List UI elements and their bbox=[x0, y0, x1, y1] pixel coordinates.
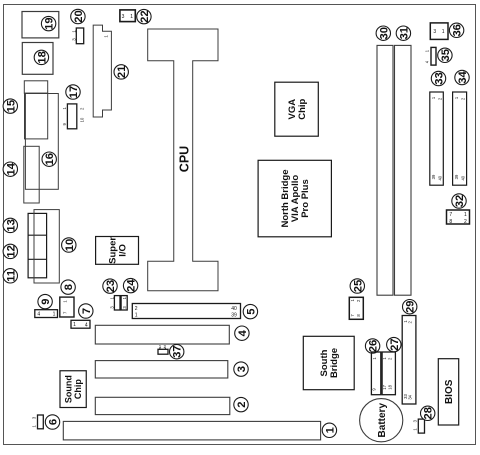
label 15 bbox=[3, 99, 17, 113]
label 14 bbox=[3, 162, 17, 176]
svg-text:3: 3 bbox=[433, 29, 436, 35]
svg-text:8: 8 bbox=[63, 284, 75, 290]
connector 22 box bbox=[120, 10, 135, 22]
label 17 bbox=[66, 85, 80, 99]
connectors 13/12/11 stack bbox=[28, 213, 46, 277]
svg-text:Battery: Battery bbox=[377, 403, 388, 438]
svg-text:18: 18 bbox=[388, 384, 393, 389]
svg-text:1: 1 bbox=[73, 322, 76, 328]
svg-text:18: 18 bbox=[36, 51, 48, 63]
svg-text:1: 1 bbox=[324, 427, 336, 433]
Battery bbox=[360, 399, 403, 442]
VGA Chip bbox=[275, 82, 319, 136]
Super I/O chip bbox=[96, 237, 139, 265]
svg-text:Chip: Chip bbox=[297, 98, 308, 119]
slot 4 bbox=[95, 325, 229, 344]
svg-text:40: 40 bbox=[438, 175, 443, 180]
svg-text:37: 37 bbox=[172, 345, 184, 357]
svg-text:34: 34 bbox=[408, 394, 413, 399]
label 37 bbox=[170, 345, 184, 359]
svg-text:22: 22 bbox=[139, 10, 151, 22]
connector 20 (3-pin) bbox=[71, 28, 83, 44]
svg-text:19: 19 bbox=[44, 17, 56, 29]
label 18 bbox=[34, 50, 48, 64]
label 4 bbox=[235, 326, 249, 340]
svg-text:4: 4 bbox=[37, 312, 40, 318]
connector 15 upper box bbox=[24, 81, 47, 93]
BIOS chip bbox=[438, 359, 458, 425]
connector 35 box bbox=[425, 47, 436, 65]
svg-text:Bridge: Bridge bbox=[329, 348, 340, 378]
label 7 bbox=[79, 304, 93, 318]
connector 15 box bbox=[25, 93, 48, 139]
svg-text:24: 24 bbox=[126, 279, 138, 292]
connector 10 outer box bbox=[34, 210, 59, 283]
label 27 bbox=[387, 337, 401, 351]
svg-text:5: 5 bbox=[245, 308, 257, 314]
svg-text:15: 15 bbox=[5, 100, 17, 112]
connector 32 box bbox=[447, 210, 470, 225]
label 23 bbox=[103, 279, 117, 293]
svg-text:16: 16 bbox=[44, 153, 56, 165]
svg-text:2: 2 bbox=[135, 306, 138, 312]
svg-text:28: 28 bbox=[423, 407, 435, 419]
DIMM slot 30 bbox=[377, 45, 393, 295]
svg-text:10: 10 bbox=[79, 117, 84, 122]
svg-text:21: 21 bbox=[116, 66, 128, 78]
label 20 bbox=[71, 9, 85, 23]
svg-text:36: 36 bbox=[452, 24, 464, 36]
label 9 bbox=[38, 294, 52, 308]
svg-text:2: 2 bbox=[236, 401, 248, 407]
svg-text:13: 13 bbox=[5, 219, 17, 231]
svg-text:39: 39 bbox=[431, 174, 436, 179]
svg-text:1: 1 bbox=[130, 14, 133, 20]
connector 28 (3-pin) bbox=[412, 419, 424, 433]
label 8 bbox=[61, 280, 75, 294]
label 12 bbox=[3, 244, 17, 258]
svg-text:34: 34 bbox=[457, 71, 469, 84]
label 5 bbox=[243, 304, 257, 318]
svg-text:40: 40 bbox=[460, 175, 465, 180]
svg-text:32: 32 bbox=[454, 195, 466, 207]
svg-text:31: 31 bbox=[398, 27, 410, 39]
svg-text:4: 4 bbox=[237, 329, 249, 336]
svg-text:7: 7 bbox=[81, 308, 93, 314]
svg-text:27: 27 bbox=[389, 338, 401, 350]
label 6 bbox=[45, 415, 59, 429]
svg-text:39: 39 bbox=[231, 313, 237, 319]
connector 5 (40-pin floppy/IDE) bbox=[132, 304, 240, 319]
connector 7 box bbox=[71, 320, 90, 328]
svg-text:I/O: I/O bbox=[117, 244, 128, 257]
connector 6 (3-pin) bbox=[32, 415, 44, 429]
label 13 bbox=[3, 218, 17, 232]
connector 17 (2x5 header) bbox=[62, 104, 84, 129]
label 32 bbox=[452, 194, 466, 208]
svg-text:35: 35 bbox=[440, 49, 452, 61]
CPU slot (Slot-1 I shape) bbox=[148, 29, 218, 291]
svg-text:Chip: Chip bbox=[73, 379, 83, 399]
connector 14 box bbox=[24, 146, 39, 203]
connector 18 box bbox=[22, 43, 53, 75]
svg-text:14: 14 bbox=[5, 162, 17, 175]
svg-text:39: 39 bbox=[454, 174, 459, 179]
connector 16 outer box bbox=[25, 94, 58, 190]
connector 36 box bbox=[430, 23, 448, 40]
label 16 bbox=[42, 152, 56, 166]
svg-text:40: 40 bbox=[231, 306, 237, 312]
connector 37 (fan) bbox=[158, 344, 168, 354]
svg-text:Sound: Sound bbox=[64, 375, 74, 403]
svg-text:11: 11 bbox=[5, 270, 17, 282]
svg-text:20: 20 bbox=[73, 10, 85, 22]
svg-text:1: 1 bbox=[464, 212, 467, 218]
svg-text:23: 23 bbox=[105, 280, 117, 292]
svg-text:8: 8 bbox=[449, 219, 452, 225]
connector 26 box bbox=[371, 352, 380, 395]
connector 27 box bbox=[382, 352, 395, 395]
svg-text:17: 17 bbox=[382, 384, 387, 389]
svg-text:7: 7 bbox=[449, 212, 452, 218]
label 11 bbox=[3, 269, 17, 283]
label 21 bbox=[114, 65, 128, 79]
connector 33 (40-pin IDE) bbox=[430, 92, 444, 185]
svg-text:Pro Plus: Pro Plus bbox=[300, 179, 311, 218]
label 33 bbox=[431, 71, 445, 85]
svg-text:12: 12 bbox=[5, 245, 17, 257]
label 22 bbox=[137, 9, 151, 23]
svg-text:33: 33 bbox=[434, 72, 446, 84]
svg-text:6: 6 bbox=[48, 419, 60, 425]
DIMM slot 31 bbox=[395, 45, 412, 295]
connector 9 box bbox=[35, 310, 58, 318]
connector 19 box bbox=[22, 12, 59, 38]
label 26 bbox=[365, 339, 379, 353]
label 35 bbox=[438, 48, 452, 62]
connector 34 (40-pin IDE) bbox=[453, 92, 467, 185]
connector 29 (34-pin) bbox=[402, 316, 416, 405]
South Bridge chip bbox=[303, 336, 354, 389]
svg-text:BIOS: BIOS bbox=[444, 379, 455, 404]
slot 3 bbox=[95, 361, 228, 378]
connector 8 box bbox=[60, 297, 74, 317]
label 10 bbox=[62, 238, 76, 252]
svg-text:26: 26 bbox=[368, 340, 380, 352]
label 29 bbox=[403, 300, 417, 314]
label 2 bbox=[234, 397, 248, 411]
label 31 bbox=[396, 26, 410, 40]
label 24 bbox=[123, 278, 137, 292]
label 30 bbox=[376, 26, 390, 40]
svg-text:29: 29 bbox=[405, 300, 417, 312]
label 19 bbox=[41, 16, 55, 30]
connector 21 (keyed header) bbox=[93, 25, 111, 117]
label 3 bbox=[234, 362, 248, 376]
svg-text:3: 3 bbox=[122, 14, 125, 20]
label 25 bbox=[350, 279, 364, 293]
svg-text:17: 17 bbox=[68, 86, 80, 98]
slot 2 bbox=[95, 397, 230, 414]
label 28 bbox=[421, 406, 435, 420]
svg-text:2: 2 bbox=[464, 219, 467, 225]
slot 1 bbox=[63, 421, 320, 440]
svg-text:CPU: CPU bbox=[177, 146, 191, 172]
svg-text:1: 1 bbox=[53, 312, 56, 318]
Sound Chip bbox=[60, 371, 86, 408]
jumpers 23/24 bbox=[110, 296, 128, 310]
connector 25 box bbox=[349, 297, 363, 319]
label 1 bbox=[322, 423, 336, 437]
svg-text:25: 25 bbox=[352, 280, 364, 292]
svg-text:30: 30 bbox=[378, 27, 390, 39]
svg-text:3: 3 bbox=[236, 366, 248, 372]
svg-text:1: 1 bbox=[135, 313, 138, 319]
svg-text:10: 10 bbox=[64, 239, 76, 251]
label 36 bbox=[449, 23, 463, 37]
North Bridge chip bbox=[258, 160, 331, 237]
svg-text:1: 1 bbox=[442, 29, 445, 35]
svg-text:9: 9 bbox=[40, 298, 52, 304]
svg-text:4: 4 bbox=[85, 323, 88, 329]
label 34 bbox=[455, 70, 469, 84]
